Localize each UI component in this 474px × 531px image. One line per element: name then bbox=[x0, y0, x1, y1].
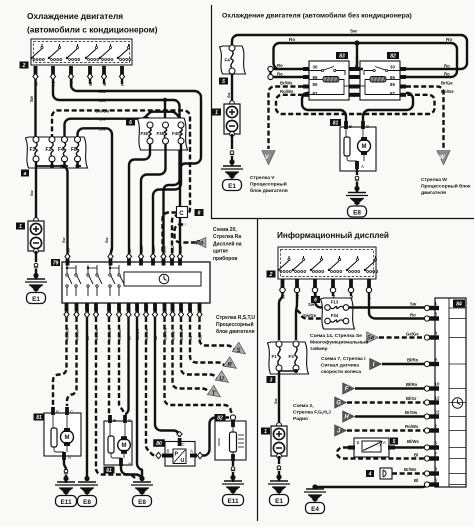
svg-text:E11: E11 bbox=[60, 499, 71, 506]
svg-text:F40: F40 bbox=[172, 131, 180, 136]
svg-text:2: 2 bbox=[269, 272, 273, 278]
svg-text:Sw: Sw bbox=[62, 237, 66, 243]
svg-text:1/5: 1/5 bbox=[180, 308, 184, 313]
svg-text:Sw: Sw bbox=[29, 95, 34, 102]
svg-text:Процессорный: Процессорный bbox=[216, 321, 254, 328]
svg-text:Ro: Ro bbox=[410, 313, 416, 318]
svg-text:2/3: 2/3 bbox=[118, 308, 122, 313]
svg-text:G: G bbox=[336, 401, 341, 407]
svg-text:Bl/Ws: Bl/Ws bbox=[407, 439, 420, 444]
svg-text:S: S bbox=[237, 348, 241, 354]
svg-text:1/15: 1/15 bbox=[162, 246, 166, 253]
svg-text:Сигнал датчика: Сигнал датчика bbox=[321, 363, 359, 369]
svg-text:F13: F13 bbox=[331, 300, 339, 305]
svg-text:Ge/Ge: Ge/Ge bbox=[406, 332, 419, 337]
svg-text:F2: F2 bbox=[46, 147, 52, 153]
svg-text:3: 3 bbox=[270, 377, 273, 383]
svg-text:2/13: 2/13 bbox=[145, 306, 149, 313]
svg-text:1/3: 1/3 bbox=[86, 308, 90, 313]
svg-text:1: 1 bbox=[264, 429, 267, 435]
svg-text:61: 61 bbox=[106, 468, 112, 474]
svg-text:Sw/Ge: Sw/Ge bbox=[303, 313, 317, 318]
svg-text:скорости колеса: скорости колеса bbox=[321, 370, 361, 375]
svg-text:Sw: Sw bbox=[30, 190, 34, 196]
svg-text:E8: E8 bbox=[138, 499, 146, 506]
svg-text:Br/Sw: Br/Sw bbox=[405, 410, 418, 415]
svg-text:F1: F1 bbox=[30, 147, 36, 153]
svg-text:1/12: 1/12 bbox=[171, 246, 175, 253]
svg-text:Схема 7, Стрелка I: Схема 7, Стрелка I bbox=[321, 356, 366, 362]
svg-text:2/7: 2/7 bbox=[163, 308, 167, 313]
svg-text:Sw/Ge: Sw/Ge bbox=[95, 108, 109, 113]
svg-text:Охлаждение двигателя (автомоби: Охлаждение двигателя (автомобили без кон… bbox=[222, 12, 412, 20]
svg-text:Ro: Ro bbox=[446, 37, 452, 42]
svg-text:Дисплей на: Дисплей на bbox=[213, 240, 242, 247]
svg-text:1/16: 1/16 bbox=[198, 306, 202, 313]
svg-text:E8: E8 bbox=[83, 499, 91, 506]
svg-text:A: A bbox=[383, 440, 386, 445]
svg-text:F4: F4 bbox=[58, 147, 64, 153]
svg-text:5: 5 bbox=[393, 439, 396, 445]
svg-text:1/6: 1/6 bbox=[66, 248, 70, 253]
svg-text:F34: F34 bbox=[331, 313, 339, 318]
svg-text:Ro: Ro bbox=[277, 63, 283, 68]
svg-text:(автомобили с кондиционером): (автомобили с кондиционером) bbox=[27, 25, 158, 35]
svg-text:Стрелка V: Стрелка V bbox=[250, 175, 275, 181]
svg-text:1/4: 1/4 bbox=[127, 308, 131, 313]
svg-text:1: 1 bbox=[215, 110, 218, 116]
svg-text:Процессорный блок: Процессорный блок bbox=[421, 183, 471, 190]
svg-text:Процессорный: Процессорный bbox=[250, 181, 287, 188]
svg-text:E1: E1 bbox=[275, 498, 283, 505]
svg-text:1/11: 1/11 bbox=[179, 246, 183, 253]
svg-text:Информационный дисплей: Информационный дисплей bbox=[277, 231, 389, 240]
svg-text:Br/Ge: Br/Ge bbox=[441, 81, 453, 86]
svg-text:Sw: Sw bbox=[410, 302, 417, 307]
svg-text:Sw: Sw bbox=[99, 98, 106, 103]
svg-text:Стрелка W: Стрелка W bbox=[421, 177, 447, 183]
svg-text:81: 81 bbox=[333, 120, 339, 126]
svg-text:B: B bbox=[349, 124, 352, 129]
svg-text:Стрелка R,S,T,U: Стрелка R,S,T,U bbox=[216, 315, 255, 321]
svg-text:F3: F3 bbox=[289, 354, 295, 359]
svg-text:6: 6 bbox=[314, 297, 317, 303]
svg-text:Схема 20,: Схема 20, bbox=[213, 227, 237, 233]
svg-text:P: P bbox=[175, 452, 179, 458]
svg-text:81: 81 bbox=[36, 415, 42, 421]
svg-text:B: B bbox=[56, 410, 59, 415]
svg-text:87: 87 bbox=[313, 91, 318, 96]
svg-text:Радио: Радио bbox=[293, 416, 308, 422]
svg-text:E1: E1 bbox=[228, 183, 236, 190]
svg-text:2/18: 2/18 bbox=[136, 306, 140, 313]
svg-text:1: 1 bbox=[19, 224, 22, 230]
svg-text:C: C bbox=[179, 211, 184, 217]
svg-text:Br/Ws: Br/Ws bbox=[280, 81, 293, 86]
svg-text:таймер: таймер bbox=[310, 345, 327, 352]
svg-text:Охлаждение двигателя: Охлаждение двигателя bbox=[27, 11, 123, 21]
svg-text:82: 82 bbox=[390, 53, 396, 59]
svg-text:12: 12 bbox=[435, 395, 440, 400]
svg-text:Bl/Ro: Bl/Ro bbox=[407, 358, 419, 363]
svg-text:M: M bbox=[65, 435, 70, 441]
svg-text:Схема 2,: Схема 2, bbox=[293, 403, 314, 409]
svg-text:Ro/Ws: Ro/Ws bbox=[405, 424, 419, 429]
svg-text:2: 2 bbox=[22, 63, 26, 69]
svg-text:1/10: 1/10 bbox=[171, 306, 175, 313]
svg-text:82: 82 bbox=[217, 415, 223, 421]
svg-text:5: 5 bbox=[222, 79, 225, 85]
svg-text:H: H bbox=[344, 415, 349, 421]
svg-text:1/8: 1/8 bbox=[189, 308, 193, 313]
svg-text:Ro/Ws: Ro/Ws bbox=[280, 89, 294, 94]
svg-text:80: 80 bbox=[156, 441, 162, 447]
svg-text:а: а bbox=[24, 171, 27, 177]
svg-text:Bl/Ro: Bl/Ro bbox=[406, 382, 418, 387]
svg-text:8: 8 bbox=[198, 210, 201, 216]
svg-text:2/1: 2/1 bbox=[154, 308, 158, 313]
svg-text:B: B bbox=[113, 418, 116, 423]
svg-text:2/20: 2/20 bbox=[108, 306, 112, 313]
svg-text:6: 6 bbox=[129, 120, 132, 126]
svg-text:Многофункциональный: Многофункциональный bbox=[310, 339, 368, 346]
svg-text:F4: F4 bbox=[225, 57, 231, 62]
svg-text:F36: F36 bbox=[141, 131, 149, 136]
svg-text:E11: E11 bbox=[227, 498, 238, 505]
svg-text:Стрелка F,G,H,J: Стрелка F,G,H,J bbox=[293, 410, 331, 416]
svg-text:10: 10 bbox=[435, 381, 440, 386]
svg-text:22: 22 bbox=[435, 409, 440, 414]
svg-text:приборов: приборов bbox=[213, 255, 237, 262]
svg-text:Ro: Ro bbox=[289, 37, 295, 42]
svg-text:1/1: 1/1 bbox=[109, 248, 113, 253]
svg-text:U: U bbox=[181, 458, 185, 464]
svg-text:C: C bbox=[182, 442, 185, 447]
svg-text:блок двигателя: блок двигателя bbox=[216, 328, 255, 335]
svg-text:1/20: 1/20 bbox=[152, 246, 156, 253]
svg-text:M: M bbox=[362, 144, 367, 150]
svg-text:85: 85 bbox=[390, 82, 395, 87]
svg-text:B: B bbox=[357, 440, 360, 445]
svg-text:Sw: Sw bbox=[105, 237, 109, 243]
svg-text:2/6: 2/6 bbox=[95, 308, 99, 313]
svg-text:M: M bbox=[122, 443, 127, 449]
svg-text:83: 83 bbox=[339, 53, 345, 59]
svg-text:Схема 14, Стрелка Se: Схема 14, Стрелка Se bbox=[310, 333, 362, 339]
svg-text:30: 30 bbox=[313, 65, 318, 70]
svg-text:блок двигателя: блок двигателя bbox=[250, 187, 288, 194]
svg-text:Sw: Sw bbox=[99, 89, 106, 94]
svg-text:Ro: Ro bbox=[444, 72, 450, 77]
svg-text:F8: F8 bbox=[71, 147, 77, 153]
svg-text:Sw: Sw bbox=[99, 117, 106, 122]
svg-text:87: 87 bbox=[390, 91, 395, 96]
svg-text:Sw: Sw bbox=[227, 92, 231, 98]
svg-text:2/4: 2/4 bbox=[75, 308, 79, 313]
svg-text:Ro: Ro bbox=[277, 72, 283, 77]
svg-text:E8: E8 bbox=[353, 209, 361, 216]
svg-text:Ra: Ra bbox=[196, 241, 204, 247]
svg-text:85: 85 bbox=[313, 82, 318, 87]
svg-text:Bl: Bl bbox=[414, 478, 418, 483]
svg-text:30: 30 bbox=[390, 65, 395, 70]
svg-text:E4: E4 bbox=[311, 506, 319, 513]
svg-text:Ro/Ge: Ro/Ge bbox=[441, 89, 454, 94]
svg-text:B: B bbox=[167, 449, 170, 454]
svg-text:F38: F38 bbox=[157, 131, 165, 136]
svg-text:двигателя: двигателя bbox=[421, 191, 446, 196]
svg-text:Bl/Gr: Bl/Gr bbox=[406, 396, 417, 401]
svg-text:79: 79 bbox=[53, 260, 59, 266]
svg-text:Bl: Bl bbox=[414, 453, 418, 458]
svg-text:4: 4 bbox=[368, 471, 372, 477]
svg-text:2/1: 2/1 bbox=[65, 308, 69, 313]
svg-text:Sw: Sw bbox=[274, 398, 278, 404]
svg-text:E1: E1 bbox=[32, 296, 40, 303]
svg-text:Sw: Sw bbox=[99, 126, 106, 131]
svg-text:U: U bbox=[219, 377, 224, 383]
svg-text:1/7: 1/7 bbox=[128, 248, 132, 253]
svg-text:A: A bbox=[190, 449, 193, 454]
svg-text:щитке: щитке bbox=[213, 249, 228, 255]
svg-text:F: F bbox=[345, 387, 349, 393]
svg-text:Sw: Sw bbox=[350, 29, 357, 34]
svg-text:Стрелка Ra: Стрелка Ra bbox=[213, 234, 241, 240]
svg-text:R: R bbox=[227, 363, 232, 369]
svg-text:1/14: 1/14 bbox=[140, 246, 144, 253]
svg-text:Ro: Ro bbox=[444, 64, 450, 69]
svg-text:F1: F1 bbox=[272, 354, 278, 359]
svg-text:Br/Ws: Br/Ws bbox=[404, 467, 417, 472]
svg-text:84: 84 bbox=[456, 301, 462, 307]
